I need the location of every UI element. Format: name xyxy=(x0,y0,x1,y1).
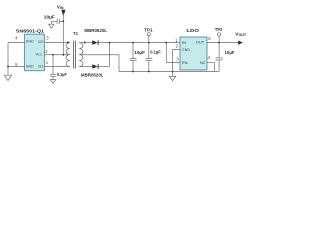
svg-text:D1: D1 xyxy=(38,64,44,69)
svg-text:10µF: 10µF xyxy=(44,14,55,20)
svg-text:NC: NC xyxy=(200,60,206,65)
svg-text:MBR0520L: MBR0520L xyxy=(84,28,107,34)
svg-text:IN: IN xyxy=(182,40,186,45)
svg-text:TP2: TP2 xyxy=(215,27,223,33)
svg-text:EN: EN xyxy=(182,60,188,65)
svg-text:MBR0520L: MBR0520L xyxy=(81,73,104,79)
svg-text:VOUT: VOUT xyxy=(235,32,247,38)
svg-text:GND: GND xyxy=(182,47,190,52)
svg-text:GND: GND xyxy=(26,64,34,69)
svg-text:0.1µF: 0.1µF xyxy=(57,72,67,78)
svg-text:D2: D2 xyxy=(38,39,44,44)
svg-text:T1: T1 xyxy=(73,31,78,37)
svg-text:VCC: VCC xyxy=(35,52,43,57)
svg-text:10µF: 10µF xyxy=(225,50,235,56)
svg-text:LDO: LDO xyxy=(186,28,199,34)
svg-text:OUT: OUT xyxy=(196,40,205,45)
svg-text:GND: GND xyxy=(26,39,34,44)
svg-text:0.1µF: 0.1µF xyxy=(150,50,161,56)
svg-text:VIN: VIN xyxy=(57,4,64,10)
svg-text:10µF: 10µF xyxy=(134,50,145,56)
svg-text:SN6501-Q1: SN6501-Q1 xyxy=(16,28,45,34)
